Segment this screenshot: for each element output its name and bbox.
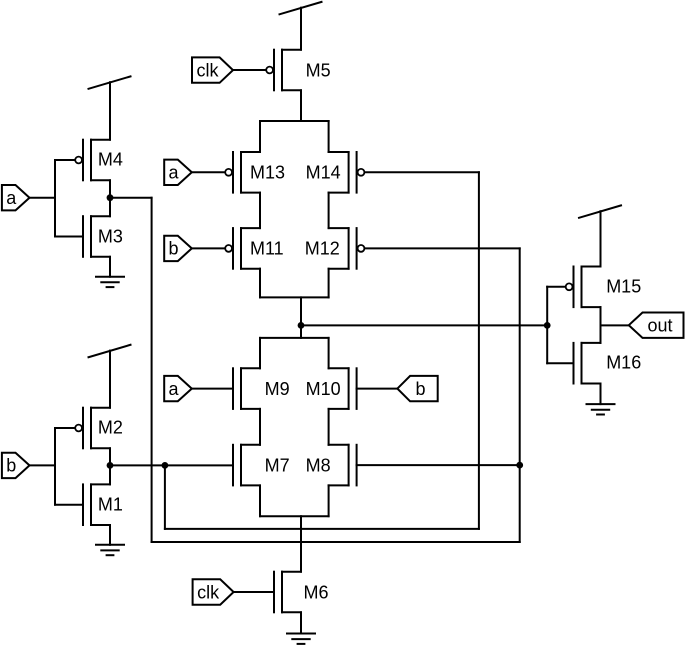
svg-text:M10: M10 <box>306 379 341 399</box>
svg-text:M12: M12 <box>305 239 340 259</box>
svg-text:M13: M13 <box>250 163 285 183</box>
svg-text:M14: M14 <box>306 163 341 183</box>
svg-text:out: out <box>647 316 672 336</box>
svg-text:M11: M11 <box>250 239 284 259</box>
svg-text:M16: M16 <box>606 353 641 373</box>
svg-text:M1: M1 <box>98 495 123 515</box>
svg-text:M5: M5 <box>306 60 331 80</box>
svg-text:M8: M8 <box>306 455 331 475</box>
svg-text:clk: clk <box>197 60 220 80</box>
svg-text:a: a <box>168 379 179 399</box>
svg-text:b: b <box>168 239 178 259</box>
svg-text:M6: M6 <box>304 582 329 602</box>
svg-text:M4: M4 <box>98 150 123 170</box>
svg-text:M3: M3 <box>98 227 123 247</box>
svg-text:b: b <box>415 379 425 399</box>
svg-text:M7: M7 <box>265 455 290 475</box>
svg-text:M2: M2 <box>98 418 123 438</box>
svg-text:clk: clk <box>197 582 220 602</box>
svg-text:M15: M15 <box>606 277 641 297</box>
svg-text:b: b <box>6 456 16 476</box>
svg-text:M9: M9 <box>265 379 290 399</box>
svg-text:a: a <box>168 163 179 183</box>
svg-text:a: a <box>6 188 17 208</box>
